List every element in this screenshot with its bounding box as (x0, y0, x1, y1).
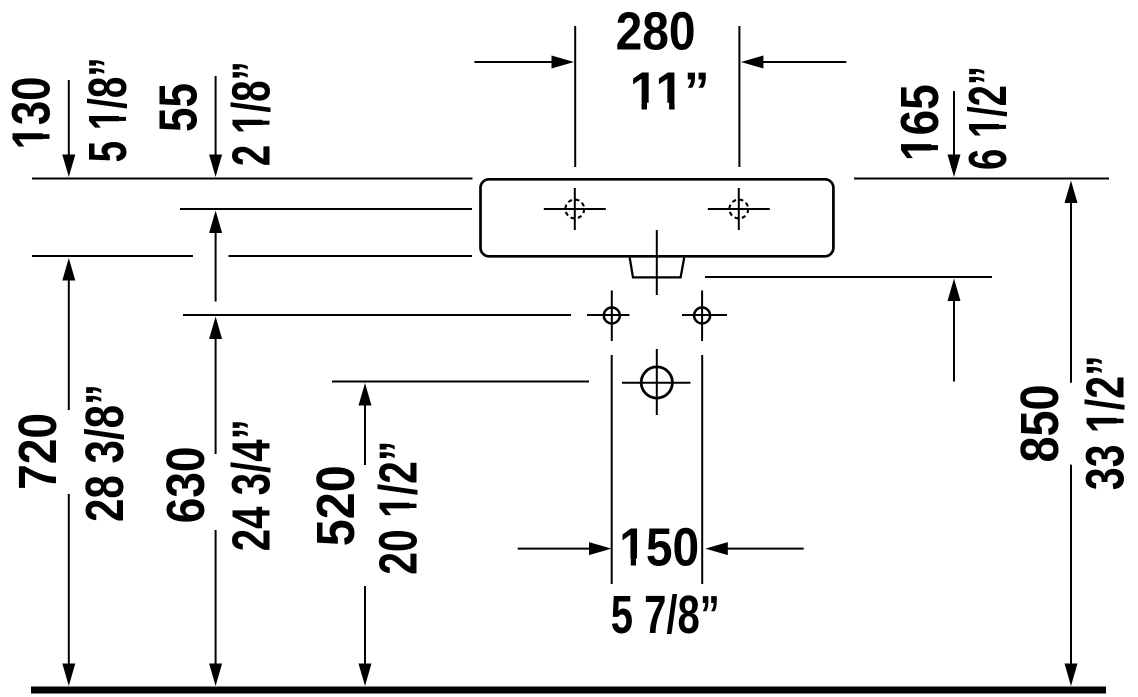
svg-text:150: 150 (619, 518, 699, 577)
svg-text:11”: 11” (630, 63, 710, 122)
svg-text:850: 850 (1011, 385, 1070, 463)
svg-text:5 7/8”: 5 7/8” (611, 586, 720, 645)
svg-text:28 3/8”: 28 3/8” (76, 384, 135, 522)
svg-text:280: 280 (616, 3, 696, 62)
svg-text:55: 55 (150, 83, 209, 132)
svg-text:5 1/8”: 5 1/8” (79, 57, 138, 162)
svg-text:130: 130 (3, 77, 62, 150)
svg-text:24 3/4”: 24 3/4” (222, 419, 281, 551)
svg-text:630: 630 (157, 446, 216, 523)
svg-text:33 1/2”: 33 1/2” (1076, 355, 1135, 490)
svg-text:720: 720 (9, 413, 68, 490)
svg-text:165: 165 (891, 84, 950, 161)
svg-text:520: 520 (307, 465, 366, 546)
svg-text:20 1/2”: 20 1/2” (369, 441, 428, 575)
svg-text:6 1/2”: 6 1/2” (959, 66, 1018, 170)
svg-text:2 1/8”: 2 1/8” (222, 61, 281, 166)
